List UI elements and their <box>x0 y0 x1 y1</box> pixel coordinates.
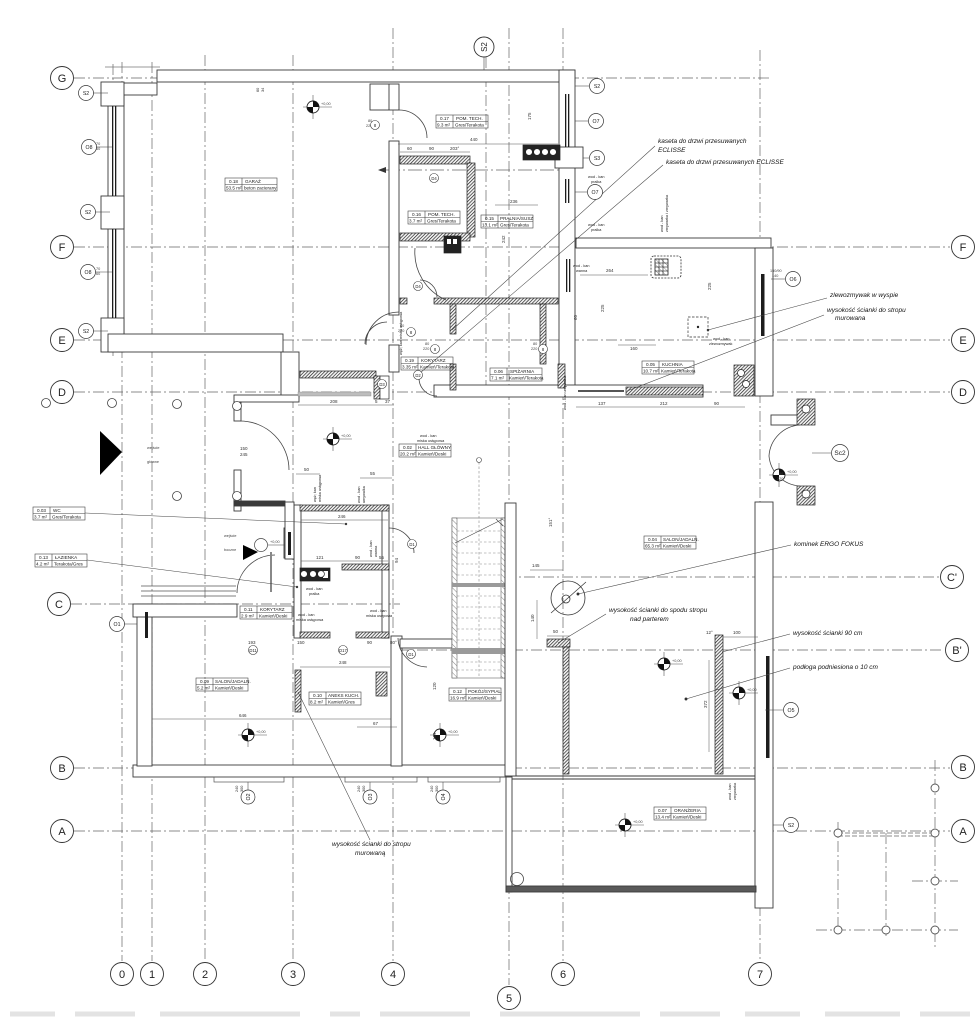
svg-text:13.1 m²: 13.1 m² <box>482 223 498 228</box>
svg-text:wod - kan umywalka: wod - kan umywalka <box>563 375 567 410</box>
svg-text:9.3 m²: 9.3 m² <box>437 123 450 128</box>
svg-text:wod - kan: wod - kan <box>420 434 436 438</box>
svg-text:HALL GŁÓWNY: HALL GŁÓWNY <box>418 444 451 450</box>
svg-text:225: 225 <box>600 304 605 312</box>
svg-text:0.03: 0.03 <box>37 508 46 513</box>
svg-text:140: 140 <box>772 274 778 278</box>
svg-text:120: 120 <box>432 682 437 690</box>
svg-text:wod - kan: wod - kan <box>728 784 732 800</box>
svg-text:60: 60 <box>256 88 260 92</box>
svg-text:ECLISSE: ECLISSE <box>658 147 686 154</box>
svg-text:Kamień/Deski: Kamień/Deski <box>418 452 446 457</box>
svg-text:kominek ERGO FOKUS: kominek ERGO FOKUS <box>794 541 864 548</box>
svg-text:D1: D1 <box>409 542 415 547</box>
svg-text:D: D <box>58 387 66 399</box>
svg-text:POKÓJ/SYPIAL.: POKÓJ/SYPIAL. <box>468 688 502 694</box>
svg-text:pralka: pralka <box>309 592 320 596</box>
svg-text:POM. TECH.: POM. TECH. <box>428 212 455 217</box>
svg-text:Kamień/Terakota: Kamień/Terakota <box>509 376 544 381</box>
svg-text:D11: D11 <box>249 648 257 653</box>
svg-text:D1: D1 <box>408 652 414 657</box>
svg-text:kaseta do drzwi przesuwanych E: kaseta do drzwi przesuwanych ECLISSE <box>666 159 784 166</box>
svg-text:20.2 m²: 20.2 m² <box>400 452 416 457</box>
svg-text:5.2 m²: 5.2 m² <box>197 686 210 691</box>
svg-text:0.06: 0.06 <box>494 369 503 374</box>
svg-text:WC: WC <box>53 508 61 513</box>
svg-text:175: 175 <box>527 112 532 120</box>
svg-text:O7: O7 <box>593 119 600 125</box>
svg-text:podłoga podniesiona o 10 cm: podłoga podniesiona o 10 cm <box>792 664 879 671</box>
svg-text:miska ustępowa: miska ustępowa <box>318 474 322 502</box>
svg-text:S2: S2 <box>85 210 91 216</box>
svg-text:55: 55 <box>370 471 376 476</box>
svg-text:S2: S2 <box>480 42 489 52</box>
svg-text:0: 0 <box>119 969 125 981</box>
svg-text:150: 150 <box>297 640 305 645</box>
svg-text:65.3 m²: 65.3 m² <box>645 544 661 549</box>
svg-text:90: 90 <box>367 640 373 645</box>
svg-text:S3: S3 <box>594 156 600 162</box>
svg-text:zlewozmywak: zlewozmywak <box>709 342 733 346</box>
svg-text:A: A <box>959 826 967 838</box>
svg-text:Terakota/Gres: Terakota/Gres <box>54 562 84 567</box>
svg-text:90: 90 <box>714 401 720 406</box>
svg-text:212: 212 <box>660 401 668 406</box>
svg-text:121: 121 <box>316 555 324 560</box>
svg-text:KORYTARZ: KORYTARZ <box>421 358 446 363</box>
svg-text:węż; kan miska ustępowa: węż; kan miska ustępowa <box>399 311 403 355</box>
svg-text:300: 300 <box>240 786 244 792</box>
svg-text:37: 37 <box>385 399 391 404</box>
svg-text:0.19: 0.19 <box>405 358 414 363</box>
svg-text:ŁAZIENKA: ŁAZIENKA <box>55 555 78 560</box>
svg-text:220: 220 <box>777 477 783 481</box>
svg-text:4: 4 <box>390 969 396 981</box>
svg-text:D17: D17 <box>339 648 347 653</box>
svg-text:242: 242 <box>501 235 506 243</box>
svg-text:300: 300 <box>435 786 439 792</box>
svg-text:murowaną: murowaną <box>355 850 386 857</box>
svg-text:3.7 m²: 3.7 m² <box>34 515 47 520</box>
svg-text:3: 3 <box>290 969 296 981</box>
svg-text:53.5 m²: 53.5 m² <box>226 186 242 191</box>
svg-text:wysokość ścianki do spodu stro: wysokość ścianki do spodu stropu <box>609 607 708 614</box>
svg-text:pralka: pralka <box>591 228 602 232</box>
svg-text:372: 372 <box>703 700 708 708</box>
svg-text:wysokość ścianki do stropu: wysokość ścianki do stropu <box>827 307 906 314</box>
svg-text:Kamień/Deski: Kamień/Deski <box>215 686 243 691</box>
svg-text:pralka: pralka <box>591 180 602 184</box>
svg-text:139: 139 <box>432 732 437 740</box>
svg-text:151°: 151° <box>548 517 553 527</box>
svg-text:ORANŻERIA: ORANŻERIA <box>674 807 702 813</box>
svg-text:B: B <box>959 762 966 774</box>
svg-text:D3: D3 <box>379 382 385 387</box>
svg-text:67: 67 <box>373 721 379 726</box>
svg-text:0.07: 0.07 <box>658 808 667 813</box>
svg-text:0.05: 0.05 <box>646 362 655 367</box>
svg-text:SALON/JADALN.: SALON/JADALN. <box>663 537 699 542</box>
svg-text:2: 2 <box>202 969 208 981</box>
svg-text:miska ustępowa: miska ustępowa <box>417 439 445 443</box>
svg-text:60: 60 <box>96 272 100 276</box>
svg-text:80: 80 <box>779 472 783 476</box>
svg-text:D: D <box>959 387 967 399</box>
svg-text:Gres/Terakota: Gres/Terakota <box>52 515 81 520</box>
svg-text:B': B' <box>952 645 961 657</box>
svg-text:2.9 m²: 2.9 m² <box>241 614 254 619</box>
svg-text:160: 160 <box>630 346 638 351</box>
svg-text:G: G <box>58 73 67 85</box>
svg-text:248: 248 <box>339 660 347 665</box>
svg-text:150: 150 <box>240 446 248 451</box>
svg-text:0.11: 0.11 <box>244 607 253 612</box>
svg-text:240: 240 <box>357 786 361 792</box>
svg-text:wejście: wejście <box>224 534 236 538</box>
svg-text:kaseta do drzwi przesuwanych: kaseta do drzwi przesuwanych <box>658 138 747 145</box>
svg-text:60: 60 <box>573 314 578 320</box>
svg-text:646: 646 <box>239 713 247 718</box>
svg-text:Kamień/Deski: Kamień/Deski <box>468 696 496 701</box>
svg-text:3.7 m²: 3.7 m² <box>409 219 422 224</box>
svg-text:0.17: 0.17 <box>440 116 449 121</box>
svg-text:94: 94 <box>394 557 399 563</box>
svg-text:55: 55 <box>379 555 385 560</box>
svg-text:5: 5 <box>506 993 512 1005</box>
svg-text:80: 80 <box>425 342 429 346</box>
svg-text:240: 240 <box>235 786 239 792</box>
svg-text:nad parterem: nad parterem <box>630 616 669 623</box>
svg-text:D4: D4 <box>431 176 437 181</box>
svg-text:300: 300 <box>362 786 366 792</box>
svg-text:wod - kan: wod - kan <box>306 587 322 591</box>
svg-text:7.1 m²: 7.1 m² <box>491 376 504 381</box>
svg-text:0.10: 0.10 <box>313 693 322 698</box>
svg-text:PRALNIA/SUSZ: PRALNIA/SUSZ <box>500 216 533 221</box>
svg-text:wod - kan: wod - kan <box>588 175 604 179</box>
svg-text:7: 7 <box>757 969 763 981</box>
svg-text:240: 240 <box>430 786 434 792</box>
svg-text:8.2 m²: 8.2 m² <box>310 700 323 705</box>
svg-text:zmywarka: zmywarka <box>733 782 737 800</box>
svg-text:O8: O8 <box>86 145 93 151</box>
svg-text:O8: O8 <box>85 270 92 276</box>
svg-text:0.13: 0.13 <box>39 555 48 560</box>
svg-text:B: B <box>58 763 65 775</box>
svg-text:+0,00: +0,00 <box>321 102 331 106</box>
svg-text:440: 440 <box>470 137 478 142</box>
svg-text:beton zacierany: beton zacierany <box>244 186 277 191</box>
svg-text:+0,00: +0,00 <box>270 540 280 544</box>
svg-text:90: 90 <box>355 555 361 560</box>
svg-text:203°: 203° <box>450 146 460 151</box>
svg-text:236: 236 <box>510 199 518 204</box>
svg-text:70: 70 <box>96 267 100 271</box>
svg-text:O4: O4 <box>441 793 447 800</box>
svg-text:POM. TECH.: POM. TECH. <box>456 116 483 121</box>
svg-text:80°: 80° <box>390 640 397 645</box>
svg-text:wod - kan: wod - kan <box>369 541 373 557</box>
svg-text:12°: 12° <box>706 630 713 635</box>
svg-text:80: 80 <box>533 342 537 346</box>
svg-text:Gres/Terakota: Gres/Terakota <box>455 123 484 128</box>
svg-text:4.2 m²: 4.2 m² <box>36 562 49 567</box>
svg-text:220: 220 <box>531 347 537 351</box>
svg-text:O1: O1 <box>114 622 121 628</box>
svg-text:wod - kan: wod - kan <box>370 609 386 613</box>
svg-text:KORYTARZ: KORYTARZ <box>260 607 285 612</box>
svg-text:wod - kan: wod - kan <box>298 613 314 617</box>
svg-text:A: A <box>58 826 66 838</box>
svg-text:100: 100 <box>733 630 741 635</box>
svg-text:137: 137 <box>598 401 606 406</box>
svg-text:50: 50 <box>553 629 559 634</box>
svg-text:16.9 m²: 16.9 m² <box>450 696 466 701</box>
svg-text:O3: O3 <box>368 793 374 800</box>
svg-text:C': C' <box>947 572 957 584</box>
svg-text:Gres/Terakota: Gres/Terakota <box>500 223 529 228</box>
svg-text:0.09: 0.09 <box>200 679 209 684</box>
svg-text:193: 193 <box>248 640 256 645</box>
svg-text:Kamień/Deski: Kamień/Deski <box>259 614 287 619</box>
svg-text:O5: O5 <box>788 708 795 714</box>
svg-text:Gres/Terakota: Gres/Terakota <box>427 219 456 224</box>
svg-text:miska usepowa: miska usepowa <box>366 614 393 618</box>
svg-text:wanna: wanna <box>374 545 378 557</box>
svg-text:0.16: 0.16 <box>412 212 421 217</box>
svg-text:264: 264 <box>606 268 614 273</box>
svg-text:13.4 m²: 13.4 m² <box>655 815 671 820</box>
svg-text:Kamień/Deski: Kamień/Deski <box>673 815 701 820</box>
svg-text:140: 140 <box>530 614 535 622</box>
svg-text:zmywarka i zmywarka: zmywarka i zmywarka <box>665 194 669 232</box>
svg-text:0.18: 0.18 <box>229 179 238 184</box>
svg-text:zlewozmywak w wyspie: zlewozmywak w wyspie <box>829 292 899 299</box>
svg-text:Kamień/Gres: Kamień/Gres <box>328 700 356 705</box>
svg-text:murowana: murowana <box>835 315 866 322</box>
svg-text:wod - kan: wod - kan <box>588 223 604 227</box>
svg-text:główne: główne <box>147 460 159 464</box>
svg-text:umywalka: umywalka <box>362 485 366 503</box>
svg-text:wod - kan: wod - kan <box>660 216 664 232</box>
svg-text:10.7 m²: 10.7 m² <box>643 369 659 374</box>
svg-text:Kamień/Deski: Kamień/Deski <box>663 544 691 549</box>
svg-text:145: 145 <box>532 563 540 568</box>
svg-text:F: F <box>960 242 967 254</box>
svg-text:0.15: 0.15 <box>485 216 494 221</box>
svg-text:ANEKS KUCH.: ANEKS KUCH. <box>328 693 359 698</box>
svg-text:wysokość ścianki 90 cm: wysokość ścianki 90 cm <box>793 630 863 637</box>
svg-text:34: 34 <box>261 88 265 92</box>
svg-text:225: 225 <box>707 282 712 290</box>
svg-text:GARAŻ: GARAŻ <box>245 178 261 184</box>
svg-text:O6: O6 <box>790 277 797 283</box>
svg-text:6: 6 <box>560 969 566 981</box>
svg-text:150/90: 150/90 <box>770 269 782 273</box>
svg-text:S2: S2 <box>788 823 794 829</box>
svg-text:wanna: wanna <box>576 269 588 273</box>
svg-text:O7: O7 <box>592 190 599 196</box>
svg-text:E: E <box>959 335 966 347</box>
svg-text:245: 245 <box>240 452 248 457</box>
svg-text:50: 50 <box>304 467 310 472</box>
svg-text:1: 1 <box>149 969 155 981</box>
svg-text:Sc2: Sc2 <box>834 450 846 457</box>
svg-text:SPIŻARNIA: SPIŻARNIA <box>510 368 535 374</box>
svg-text:S2: S2 <box>83 91 89 97</box>
svg-text:wysokość ścianki do stropu: wysokość ścianki do stropu <box>332 841 411 848</box>
svg-text:C: C <box>55 599 63 611</box>
svg-text:208: 208 <box>330 399 338 404</box>
svg-text:wejście: wejście <box>147 446 159 450</box>
svg-text:miska ustępowa: miska ustępowa <box>296 618 324 622</box>
svg-text:220: 220 <box>423 347 429 351</box>
svg-text:3.35 m²: 3.35 m² <box>402 365 418 370</box>
svg-text:D2: D2 <box>415 373 421 378</box>
svg-text:S2: S2 <box>83 329 89 335</box>
svg-text:wod - kan: wod - kan <box>713 337 729 341</box>
svg-text:0.02: 0.02 <box>403 445 412 450</box>
svg-text:węż; kan: węż; kan <box>313 487 317 502</box>
svg-text:wod - kan: wod - kan <box>357 487 361 503</box>
svg-text:wod - kan: wod - kan <box>573 264 589 268</box>
svg-text:O2: O2 <box>246 793 252 800</box>
svg-text:S2: S2 <box>594 84 600 90</box>
svg-text:KUCHNIA: KUCHNIA <box>662 362 684 367</box>
svg-text:F: F <box>59 242 66 254</box>
svg-text:boczne: boczne <box>224 548 236 552</box>
svg-text:0.04: 0.04 <box>648 537 657 542</box>
svg-text:60: 60 <box>407 146 413 151</box>
svg-text:246: 246 <box>338 514 346 519</box>
svg-text:SALON/JADALN.: SALON/JADALN. <box>215 679 251 684</box>
svg-text:0.12: 0.12 <box>453 689 462 694</box>
svg-text:90: 90 <box>429 146 435 151</box>
svg-text:D4: D4 <box>415 284 421 289</box>
svg-text:E: E <box>58 335 65 347</box>
